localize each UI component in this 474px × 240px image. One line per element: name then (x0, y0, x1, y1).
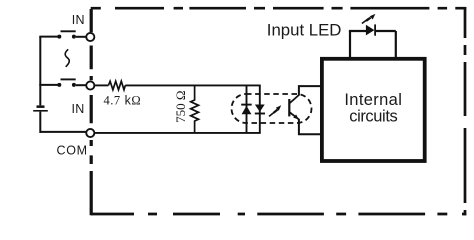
wire: S1a to terminal IN1 (76, 36, 86, 38)
LED D3 (366, 24, 375, 35)
optocoupler outline (dashed) (232, 94, 312, 123)
internal circuits box (322, 59, 425, 161)
battery BT1 (33, 105, 48, 111)
wire: collector to internal box (299, 86, 321, 95)
phototransistor Q1 (289, 95, 299, 119)
terminal IN2 (86, 81, 94, 89)
svg-text:Internalcircuits: Internalcircuits (344, 91, 402, 126)
svg-text:Input LED: Input LED (267, 20, 342, 39)
svg-text:4.7 kΩ: 4.7 kΩ (104, 94, 142, 108)
module boundary right (dashed) (464, 7, 467, 215)
wire: rail to switch S1a (39, 36, 57, 38)
module boundary bottom (dashed) (91, 213, 466, 216)
switch S1b blade (61, 78, 76, 80)
wire: bottom rail COM to ladder (95, 132, 261, 134)
wire: battery rail (39, 37, 41, 106)
terminal IN1 (86, 33, 94, 41)
svg-text:IN: IN (71, 102, 84, 116)
svg-text:IN: IN (72, 13, 85, 27)
switch mechanical link (65, 49, 69, 67)
wire: emitter to internal box (299, 119, 321, 135)
svg-text:750 Ω: 750 Ω (173, 90, 188, 122)
wire: LED top left (349, 30, 366, 32)
diode branch left wire (246, 85, 248, 132)
wire: S1b to terminal IN2 (76, 84, 86, 86)
switch S1a blade (61, 30, 76, 32)
resistor R1 4.7k zigzag (108, 81, 125, 90)
wire: rail to switch S1b (39, 84, 57, 86)
wire: R1 to diode ladder (125, 84, 260, 86)
terminal COM (86, 129, 94, 137)
diode D2 (cathode down) (255, 105, 265, 114)
diode D1 (cathode up) (241, 105, 252, 115)
light arrow (optocoupler) (269, 105, 281, 116)
module boundary left (dash segments) (90, 9, 93, 215)
wire: battery to COM (40, 112, 86, 133)
resistor R2 750 (191, 85, 199, 132)
wire: IN2 to resistor R1 (95, 84, 109, 86)
LED light arrow (362, 14, 376, 24)
diode branch right wire (259, 85, 261, 132)
switch S1a contact dots (57, 35, 76, 39)
wire: LED top right and loop right (375, 31, 395, 58)
wire: box to LED loop left (349, 31, 351, 58)
switch S1b contact dots (57, 83, 76, 87)
svg-text:COM: COM (57, 143, 88, 157)
module boundary top (dashed) (91, 7, 467, 10)
